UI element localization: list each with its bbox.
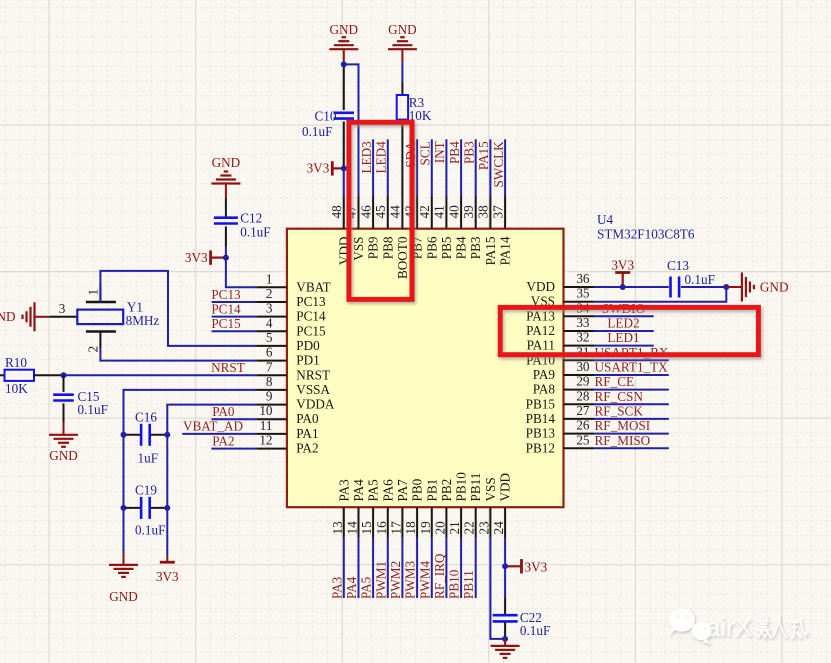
capacitor C19 0.1uF [124, 483, 168, 538]
svg-text:VDD: VDD [526, 279, 555, 294]
svg-text:0.1uF: 0.1uF [685, 272, 715, 287]
svg-text:RF_MISO: RF_MISO [595, 433, 651, 448]
wire pin 23 (VSS) to GND node [490, 538, 505, 639]
junction [164, 505, 170, 511]
net label USART1_TX on pin 30 wire [594, 360, 669, 376]
wire left edge to R10 [0, 374, 5, 376]
svg-text:28: 28 [576, 388, 590, 403]
pin 1 (VBAT) [256, 271, 330, 294]
svg-text:38: 38 [476, 205, 491, 219]
svg-text:VDD: VDD [498, 473, 513, 502]
pin 10 (PA0) [256, 403, 319, 426]
wire junction to C15 [63, 375, 65, 392]
junction [502, 636, 508, 642]
svg-text:18: 18 [403, 521, 418, 535]
svg-text:PWM3: PWM3 [403, 560, 418, 599]
net label LED1 on pin 32 wire [594, 330, 654, 346]
svg-text:PA1: PA1 [296, 426, 318, 441]
svg-text:GND: GND [330, 22, 359, 37]
svg-text:STM32F103C8T6: STM32F103C8T6 [597, 226, 695, 241]
junction [723, 284, 729, 290]
pin 11 (PA1) [256, 418, 318, 441]
svg-text:8: 8 [266, 374, 273, 389]
wire R3 to pin 44 [401, 120, 403, 197]
svg-text:44: 44 [388, 205, 403, 219]
svg-text:airX: airX [706, 612, 752, 642]
svg-text:42: 42 [417, 205, 432, 218]
net label PA0 on pin 10 wire [211, 404, 256, 419]
svg-text:25: 25 [576, 432, 590, 447]
wire GND stem [726, 286, 742, 288]
wire GND stem [504, 639, 506, 646]
svg-text:36: 36 [576, 271, 590, 286]
svg-text:C16: C16 [135, 410, 157, 425]
junction [620, 284, 626, 290]
pin 43 (PB7) [402, 197, 424, 260]
svg-text:PA15: PA15 [476, 141, 491, 170]
svg-text:0.1uF: 0.1uF [135, 523, 165, 538]
svg-text:PC13: PC13 [211, 287, 241, 302]
net label SWDIO on pin 34 wire [594, 301, 654, 317]
svg-text:1: 1 [266, 271, 273, 286]
pin 32 (PA11) [527, 330, 594, 353]
pin 39 (PB3) [461, 197, 483, 260]
svg-text:PB4: PB4 [447, 141, 462, 164]
pin 31 (PA10) [526, 344, 594, 367]
svg-text:C10: C10 [315, 108, 337, 123]
svg-text:35: 35 [576, 286, 590, 301]
pin 36 (VDD) [526, 271, 594, 294]
svg-text:RF_SCK: RF_SCK [595, 403, 644, 418]
svg-text:27: 27 [576, 403, 590, 418]
net label PC15 on pin 4 wire [211, 316, 256, 331]
net label PA3 on pin 13 wire [329, 538, 344, 600]
svg-text:PA0: PA0 [296, 411, 319, 426]
net label LED3 on pin 46 wire [359, 139, 374, 196]
net label VBAT_AD on pin 11 wire [182, 419, 256, 434]
net label RF_CSN on pin 28 wire [594, 389, 669, 405]
wire R10 to junction [34, 374, 64, 376]
capacitor C15 0.1uF [53, 389, 108, 417]
wire 3V3 tap [505, 565, 521, 567]
pin 23 (VSS) [476, 477, 498, 537]
pin 2 (PC13) [256, 286, 326, 309]
svg-text:30: 30 [576, 359, 590, 374]
svg-text:40: 40 [446, 205, 461, 219]
svg-text:PD0: PD0 [296, 338, 320, 353]
svg-text:21: 21 [447, 521, 462, 534]
pin 33 (PA12) [526, 315, 594, 338]
svg-text:PA11: PA11 [527, 338, 555, 353]
svg-text:9: 9 [266, 389, 273, 404]
pin 19 (PB1) [418, 479, 440, 538]
svg-text:PA15: PA15 [483, 236, 498, 265]
svg-text:10K: 10K [5, 381, 28, 396]
svg-text:PB1: PB1 [424, 479, 439, 502]
svg-text:11: 11 [260, 418, 273, 433]
capacitor C12 0.1uF [214, 211, 271, 240]
pin 15 (PA5) [359, 479, 381, 538]
pin 45 (PB8) [373, 197, 395, 260]
net label PWM1 on pin 16 wire [373, 538, 388, 600]
pin 41 (PB5) [432, 197, 454, 260]
ground [491, 646, 520, 658]
svg-text:3: 3 [59, 301, 66, 316]
wire 3V3 rail stem [166, 556, 168, 562]
pin 13 (PA3) [330, 479, 352, 538]
svg-text:NRST: NRST [211, 360, 245, 375]
net label SDA on pin 43 wire [403, 139, 418, 196]
svg-text:GND: GND [109, 589, 138, 604]
power 3V3 [185, 250, 211, 265]
svg-text:45: 45 [373, 205, 388, 219]
annotation red box (LED1/LED2 pins) [500, 307, 758, 354]
resistor R10 10K [5, 355, 35, 396]
svg-text:14: 14 [345, 521, 360, 535]
pin 48 (VDD) [329, 197, 351, 266]
svg-text:PA2: PA2 [296, 441, 318, 456]
wire GND node to pin 47 (VSS) [344, 64, 359, 196]
pin 9 (VDDA) [256, 389, 334, 412]
junction [341, 165, 347, 171]
svg-text:7: 7 [266, 359, 273, 374]
svg-text:GND: GND [760, 280, 789, 295]
IC U4 STM32F103C8T6 body [287, 229, 564, 508]
svg-text:37: 37 [490, 205, 505, 219]
net label PB10 on pin 21 wire [447, 538, 462, 600]
svg-text:PB10: PB10 [447, 569, 462, 599]
svg-text:6: 6 [266, 345, 273, 360]
wire C13 to GND node [681, 286, 726, 288]
svg-text:22: 22 [462, 521, 477, 534]
net label LED4 on pin 45 wire [374, 139, 389, 196]
junction [223, 255, 229, 261]
svg-text:3V3: 3V3 [525, 560, 548, 575]
watermark airX logo [669, 608, 807, 644]
svg-text:C12: C12 [240, 211, 262, 226]
net label RF_CE on pin 29 wire [594, 374, 669, 390]
net label PB11 on pin 22 wire [461, 538, 476, 600]
net label PA5 on pin 15 wire [359, 538, 374, 600]
net label SCL on pin 42 wire [418, 139, 433, 196]
svg-text:29: 29 [576, 374, 590, 389]
ground [388, 37, 417, 49]
svg-text:U4: U4 [597, 212, 614, 227]
wire pin 36 (VDD) to C13 [594, 286, 669, 288]
pin 7 (NRST) [256, 359, 330, 382]
net label PWM2 on pin 17 wire [388, 538, 403, 600]
svg-text:PC14: PC14 [211, 301, 241, 316]
wire GND to R3 [401, 62, 403, 82]
svg-text:PC15: PC15 [296, 323, 326, 338]
pin 37 (PA14) [490, 197, 512, 266]
svg-text:PC15: PC15 [211, 316, 241, 331]
svg-text:GND: GND [212, 155, 241, 170]
svg-text:0.1uF: 0.1uF [240, 225, 270, 240]
pin 24 (VDD) [491, 473, 512, 538]
svg-text:PB5: PB5 [439, 236, 454, 259]
svg-text:PA12: PA12 [526, 323, 555, 338]
pin 5 (PD0) [256, 330, 320, 353]
power 3V3 [156, 562, 179, 584]
svg-text:LED2: LED2 [607, 316, 639, 331]
svg-text:15: 15 [359, 521, 374, 535]
svg-text:GND: GND [49, 448, 78, 463]
svg-text:8MHz: 8MHz [126, 313, 160, 328]
wire pin 9 (VDDA) to 3V3 rail [167, 405, 256, 556]
wire GND stem [225, 184, 227, 199]
junction [502, 563, 508, 569]
junction [341, 61, 347, 67]
wire GND to C12 [225, 198, 227, 218]
annotation red box (LED3/LED4/BOOT0 pins) [349, 122, 412, 299]
svg-text:LED1: LED1 [607, 330, 639, 345]
wire C22 to GND node [504, 623, 506, 639]
svg-text:RF_IRQ: RF_IRQ [432, 553, 447, 599]
ground [109, 565, 138, 604]
svg-text:PWM2: PWM2 [388, 561, 403, 599]
ground [329, 37, 358, 49]
wire GND stem [343, 49, 345, 64]
net label PB3 on pin 39 wire [462, 139, 477, 196]
wire 3V3 stem [622, 273, 624, 288]
net label RF_IRQ on pin 20 wire [432, 538, 447, 600]
svg-text:0.1uF: 0.1uF [78, 402, 108, 417]
svg-text:PB12: PB12 [526, 440, 555, 455]
junction [121, 432, 127, 438]
wire GND stem [401, 49, 403, 62]
svg-text:41: 41 [432, 205, 447, 218]
svg-text:2: 2 [86, 346, 101, 353]
pin 46 (PB9) [358, 197, 380, 260]
pin 35 (VSS) [531, 286, 594, 309]
svg-text:PB4: PB4 [454, 236, 469, 259]
svg-text:VSSA: VSSA [296, 382, 330, 397]
svg-text:PB13: PB13 [526, 426, 556, 441]
svg-text:PA7: PA7 [395, 479, 410, 502]
svg-text:VSS: VSS [483, 477, 498, 501]
svg-text:PA3: PA3 [329, 576, 344, 599]
wire 3V3 tap [211, 257, 226, 259]
svg-text:24: 24 [491, 521, 506, 535]
svg-text:NRST: NRST [296, 367, 330, 382]
pin 3 (PC14) [256, 301, 326, 324]
wire 3V3 tap [332, 167, 344, 169]
svg-text:1uF: 1uF [138, 451, 159, 466]
pin 22 (PB11) [462, 473, 484, 538]
net label RF_MOSI on pin 26 wire [594, 418, 669, 434]
svg-text:PB8: PB8 [380, 236, 395, 259]
svg-text:R10: R10 [5, 355, 27, 370]
pin 27 (PB14) [526, 403, 594, 426]
svg-text:C19: C19 [135, 483, 157, 498]
capacitor C10 0.1uF [302, 108, 354, 139]
ground [49, 435, 78, 463]
wire 3V3 node to C22 [504, 566, 506, 598]
net label RF_MISO on pin 25 wire [594, 433, 669, 449]
svg-text:PA0: PA0 [212, 404, 235, 419]
capacitor C22 0.1uF [493, 610, 551, 638]
svg-text:PA14: PA14 [498, 236, 513, 265]
svg-text:GND: GND [0, 309, 16, 324]
svg-text:33: 33 [576, 315, 590, 330]
net label SWCLK on pin 37 wire [491, 139, 506, 196]
svg-text:PB9: PB9 [366, 236, 381, 259]
wire C12 to 3V3 node [225, 226, 227, 246]
svg-text:48: 48 [329, 205, 344, 219]
wire junction to pin 7 (NRST) [64, 374, 257, 376]
svg-text:2: 2 [266, 286, 273, 301]
svg-text:0.1uF: 0.1uF [520, 623, 550, 638]
net label PWM4 on pin 19 wire [417, 538, 432, 600]
svg-text:3V3: 3V3 [611, 258, 634, 273]
svg-text:PA2: PA2 [212, 433, 234, 448]
power 3V3 [522, 559, 548, 574]
svg-text:16: 16 [374, 521, 389, 535]
junction [61, 372, 67, 378]
svg-text:39: 39 [461, 205, 476, 219]
svg-text:INT: INT [432, 141, 447, 163]
svg-text:5: 5 [266, 330, 273, 345]
pin 30 (PA9) [533, 359, 594, 382]
svg-text:PB0: PB0 [410, 478, 425, 501]
ground [211, 172, 240, 184]
net label LED2 on pin 33 wire [594, 316, 654, 332]
svg-text:PB3: PB3 [468, 236, 483, 259]
wire crystal pin2 to pin 6 (PD1) [100, 348, 256, 361]
svg-text:PD1: PD1 [296, 353, 319, 368]
pin 18 (PB0) [403, 478, 425, 537]
wire GND to C10 [343, 64, 345, 110]
wire pin 35 (VSS) to GND node [594, 287, 726, 302]
svg-text:26: 26 [576, 418, 590, 433]
wire C10 to 3V3 node [343, 122, 345, 169]
power 3V3 [307, 160, 333, 175]
svg-text:0.1uF: 0.1uF [302, 124, 332, 139]
svg-text:SCL: SCL [418, 141, 433, 165]
svg-text:4: 4 [266, 315, 273, 330]
junction [121, 505, 127, 511]
svg-text:1: 1 [86, 289, 101, 296]
pin 42 (PB6) [417, 197, 439, 260]
svg-text:12: 12 [259, 433, 272, 448]
pin 17 (PA7) [388, 479, 410, 538]
svg-text:RF_CE: RF_CE [595, 374, 635, 389]
net label PA2 on pin 12 wire [211, 433, 256, 448]
pin 47 (VSS) [344, 197, 366, 261]
pin 34 (PA13) [526, 300, 594, 323]
svg-text:PB10: PB10 [454, 472, 469, 502]
pin 38 (PA15) [476, 197, 498, 266]
svg-text:PB11: PB11 [468, 473, 483, 502]
svg-text:PA9: PA9 [533, 367, 556, 382]
pin 4 (PC15) [256, 315, 326, 338]
capacitor C13 0.1uF [667, 258, 715, 298]
svg-text:PB15: PB15 [526, 396, 556, 411]
svg-text:23: 23 [476, 521, 491, 535]
pin 20 (PB2) [432, 479, 454, 538]
wire C15 to GND [63, 403, 65, 422]
svg-text:PA8: PA8 [533, 382, 556, 397]
svg-text:PA5: PA5 [359, 576, 374, 599]
pin 40 (PB4) [446, 197, 468, 260]
pin 8 (VSSA) [256, 374, 330, 397]
capacitor C16 1uF [124, 410, 168, 466]
svg-text:17: 17 [388, 521, 403, 535]
svg-text:PA13: PA13 [526, 308, 555, 323]
pin 16 (PA6) [374, 479, 396, 538]
pin 25 (PB12) [526, 432, 594, 455]
svg-text:RF_CSN: RF_CSN [595, 389, 644, 404]
svg-text:C13: C13 [667, 258, 689, 273]
svg-text:PA6: PA6 [380, 479, 395, 502]
svg-text:46: 46 [358, 205, 373, 219]
svg-text:PA5: PA5 [366, 479, 381, 502]
net label PB4 on pin 40 wire [447, 139, 462, 196]
svg-text:PC13: PC13 [296, 294, 326, 309]
svg-text:PB6: PB6 [424, 236, 439, 259]
wire 3V3 to pin 1 (VBAT) [226, 258, 257, 288]
svg-text:VSS: VSS [351, 237, 366, 261]
svg-text:3: 3 [266, 301, 273, 316]
svg-text:3V3: 3V3 [185, 250, 208, 265]
pin 29 (PA8) [533, 374, 594, 397]
svg-text:PA3: PA3 [336, 479, 351, 502]
svg-text:20: 20 [432, 521, 447, 535]
svg-text:USART1_TX: USART1_TX [595, 360, 669, 375]
power 3V3 [611, 258, 634, 273]
pin 26 (PB13) [526, 418, 594, 441]
svg-text:PWM4: PWM4 [417, 560, 432, 599]
ground [742, 273, 754, 302]
svg-text:19: 19 [418, 521, 433, 535]
svg-text:13: 13 [330, 521, 345, 535]
wire crystal pin1 stem [99, 283, 101, 302]
svg-text:3V3: 3V3 [156, 569, 179, 584]
wire pin 8 (VSSA) to GND rail [124, 390, 257, 553]
svg-text:LED4: LED4 [374, 141, 389, 174]
net label PC14 on pin 3 wire [211, 301, 256, 316]
net label PA15 on pin 38 wire [476, 139, 491, 196]
wire GND to crystal pin 3 [35, 316, 50, 318]
svg-text:BOOT0: BOOT0 [395, 236, 410, 279]
pin 44 (BOOT0) [388, 197, 410, 280]
svg-text:VBAT: VBAT [296, 279, 330, 294]
svg-text:PWM1: PWM1 [373, 561, 388, 599]
net label USART1_RX on pin 31 wire [594, 345, 669, 361]
ground [23, 302, 35, 331]
svg-text:LED3: LED3 [359, 141, 374, 174]
pin 28 (PB15) [526, 388, 594, 411]
wire crystal pin1 to pin 5 (PD0) [100, 271, 256, 346]
svg-text:VBAT_AD: VBAT_AD [183, 419, 243, 434]
wire crystal pin2 stem [99, 332, 101, 349]
crystal Y1 8MHz [77, 300, 159, 332]
pin 21 (PB10) [447, 472, 469, 538]
svg-text:3V3: 3V3 [307, 160, 330, 175]
svg-text:GND: GND [388, 22, 417, 37]
junction [164, 432, 170, 438]
net label RF_SCK on pin 27 wire [594, 403, 669, 419]
svg-text:PB2: PB2 [439, 479, 454, 502]
svg-text:PB11: PB11 [461, 570, 476, 599]
net label PWM3 on pin 18 wire [403, 538, 418, 600]
svg-text:PB14: PB14 [526, 411, 556, 426]
net label INT on pin 41 wire [432, 139, 447, 196]
wire 3V3 to pin 48 [343, 168, 345, 196]
pin 12 (PA2) [256, 433, 318, 456]
resistor R3 10K [397, 95, 432, 123]
